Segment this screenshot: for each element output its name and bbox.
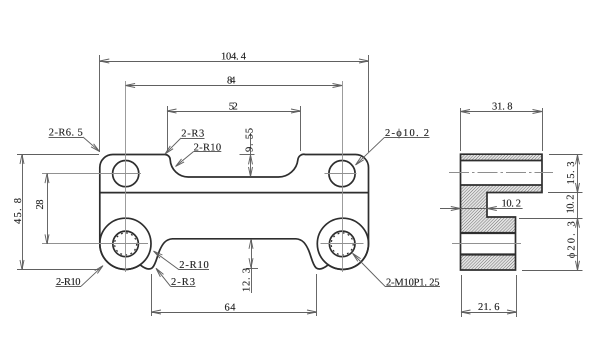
svg-text:10. 2: 10. 2 [566, 195, 577, 214]
extension line right y=218 [519, 218, 583, 220]
extension line 21.6 left [461, 275, 463, 317]
extension line 12.3 bottom [246, 268, 259, 270]
front view clamp body outline [100, 154, 369, 269]
extension line 64 right [316, 274, 318, 316]
dimension line 21.6 [461, 312, 517, 314]
dimension line 84 [126, 85, 342, 87]
svg-text:10. 2: 10. 2 [502, 199, 522, 210]
hole top-right (phi 10.2) [329, 161, 355, 187]
threaded hole bottom-right M10 major circle [329, 231, 355, 257]
svg-text:64: 64 [225, 303, 237, 314]
dimension line 45.8 vertical [22, 155, 24, 270]
svg-text:2-R3: 2-R3 [181, 129, 204, 140]
dimension line 12.3 vertical [251, 239, 253, 293]
svg-text:15. 3: 15. 3 [566, 162, 577, 185]
centerline vertical left column [125, 81, 127, 272]
extension line left x=100 [99, 55, 101, 152]
svg-text:21. 6: 21. 6 [478, 302, 500, 313]
boss circle bottom-left [100, 218, 151, 269]
extension line right y=192.5 [548, 192, 583, 194]
side view centerline bottom hole [452, 243, 521, 245]
extension line 31.8 left [460, 108, 462, 151]
threaded hole bottom-right thread dashes [331, 233, 353, 255]
svg-text:28: 28 [35, 200, 46, 210]
extension line 9.55 top [240, 154, 255, 156]
svg-text:45. 8: 45. 8 [13, 198, 24, 224]
extension line 45.8 top [17, 154, 99, 156]
svg-text:84: 84 [227, 76, 236, 87]
threaded hole bottom-left M10 major circle [113, 231, 139, 257]
centerline horizontal top-left hole [42, 173, 141, 175]
hatch bottom block [461, 255, 516, 271]
hatch top strip of upper block [461, 155, 543, 161]
dimension line 104.4 [100, 61, 369, 63]
step edge line across front view [100, 192, 369, 194]
dimension line 52 [167, 111, 301, 113]
hatch bottom strip of upper block [461, 185, 543, 193]
dimension line 28 vertical [47, 174, 49, 244]
side view hole upper wall [461, 160, 543, 162]
svg-text:2-R6. 5: 2-R6. 5 [49, 127, 83, 138]
extension line 52 right [300, 106, 302, 151]
extension line right y=155 [549, 154, 583, 156]
boss circle bottom-right [317, 218, 368, 269]
threaded hole bottom-left thread dashes [115, 233, 137, 255]
centerline horizontal bottom-right hole [321, 243, 364, 245]
centerline horizontal top-right hole [325, 173, 357, 175]
extension line 31.8 right [542, 108, 544, 151]
side view centerline top hole (dash-dot) [449, 172, 553, 174]
extension line right x=368.5 [368, 55, 370, 152]
svg-text:31. 8: 31. 8 [492, 102, 513, 113]
dimension line 9.55 vertical [250, 133, 252, 177]
centerline horizontal bottom-left hole [42, 243, 148, 245]
extension line 21.6 right [516, 275, 518, 317]
side view hole lower wall [461, 184, 543, 186]
extension line 64 left [151, 274, 153, 316]
svg-text:12. 3: 12. 3 [242, 268, 253, 292]
svg-text:52: 52 [229, 102, 238, 113]
svg-text:9. 55: 9. 55 [245, 128, 256, 152]
hatch left column and middle block [461, 193, 516, 233]
dimension line 31.8 [461, 111, 543, 113]
dimension line 64 [152, 312, 317, 314]
extension line right y=270 [522, 270, 583, 272]
dimension line right stack vertical [577, 155, 579, 270]
svg-text:104. 4: 104. 4 [221, 52, 247, 63]
centerline vertical right column [342, 81, 344, 272]
extension line 52 left [167, 106, 169, 151]
dimension line 10.2 notch [440, 208, 523, 210]
side view thread hole lower wall [461, 253, 516, 255]
extension line 45.8 bottom [17, 269, 99, 271]
side view thread hole upper wall [461, 232, 516, 234]
side view section outline [461, 154, 543, 270]
svg-text:ϕ20. 3: ϕ20. 3 [567, 221, 578, 258]
hole top-left (phi 10.2) [113, 161, 139, 187]
